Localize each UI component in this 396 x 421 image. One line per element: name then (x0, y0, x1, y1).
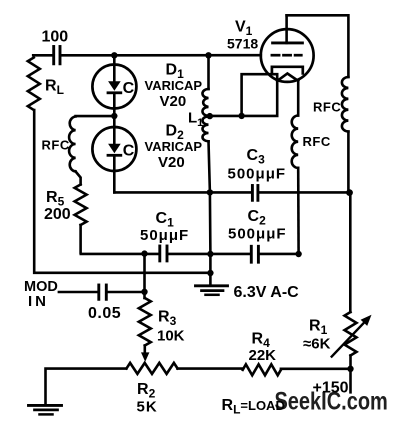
wire left rail down (34, 110, 210, 273)
svg-text:50μμF: 50μμF (140, 227, 189, 244)
tube V1 5718 envelope (227, 19, 314, 82)
node C bus at MOD divider (141, 250, 147, 256)
wire MOD divider vertical (143, 254, 146, 298)
capacitor 100 (42, 29, 69, 64)
wire right rail middle (348, 132, 350, 313)
wire L1 bottom down to ground bus (209, 141, 211, 285)
wire R2 to R4 (178, 367, 243, 370)
wire L1 tap to cathode loop (210, 115, 242, 118)
wire tank bottom bus left part (114, 191, 250, 194)
node ground tee (207, 270, 213, 276)
wire RFC middle down to C2 bus (297, 168, 300, 254)
node top of D1 (111, 52, 117, 58)
svg-text:VARICAP: VARICAP (145, 78, 203, 93)
wire tube top to right rail (287, 15, 349, 77)
label VARICAP V20 (D2) (145, 139, 203, 171)
node bottom right rail (347, 366, 353, 372)
varicap D1 (92, 55, 136, 116)
wire 0.05 to R3 node (109, 291, 145, 294)
wire cathode/filament loop under tube (242, 74, 278, 116)
svg-text:RFC: RFC (303, 134, 331, 149)
wire ground-left to R2 (46, 369, 127, 405)
svg-text:SeekIC.com: SeekIC.com (274, 387, 387, 415)
wire filament right lead (297, 81, 300, 116)
svg-text:0.05: 0.05 (88, 305, 121, 322)
ground 6.3V A-C (196, 284, 300, 301)
inductor L1 (188, 55, 209, 141)
capacitor C3 500uuF (228, 147, 287, 200)
terminal +150 stub (313, 369, 351, 397)
node D1/D2 junction (111, 113, 117, 119)
wire C bus left part (81, 253, 158, 256)
wire C bus middle part (169, 253, 249, 256)
svg-text:C: C (123, 142, 135, 159)
resistor R5 200 (44, 172, 87, 253)
wire R4 to right rail (281, 367, 351, 370)
tube grid (dashed) (272, 54, 301, 57)
node L1 tap (207, 113, 213, 119)
node cathode loop corner (238, 113, 244, 119)
wire tank bottom bus right part (260, 191, 350, 194)
svg-text:≈6K: ≈6K (303, 336, 331, 353)
svg-text:R1: R1 (309, 318, 328, 338)
tube cathode (272, 67, 303, 74)
svg-text:22K: 22K (249, 347, 277, 364)
tube filament (277, 74, 298, 81)
ground bottom-left (29, 405, 62, 414)
capacitor 0.05 (88, 285, 121, 322)
svg-text:C3: C3 (247, 147, 266, 167)
varicap D2 (92, 116, 136, 192)
node tank bus at right rail (346, 189, 353, 196)
wire plate lead (285, 15, 288, 43)
svg-text:500μμF: 500μμF (228, 166, 287, 183)
svg-text:RL: RL (45, 78, 64, 98)
resistor R3 10K (139, 298, 185, 353)
resistor R4 22K (243, 331, 281, 376)
inductor RFC right (313, 77, 348, 132)
svg-text:100: 100 (42, 29, 69, 46)
svg-text:VARICAP: VARICAP (145, 139, 203, 154)
capacitor C2 500uuF (228, 208, 287, 262)
node MOD junction (141, 289, 147, 295)
svg-text:5718: 5718 (227, 36, 258, 52)
label VARICAP V20 (D1) (145, 78, 203, 110)
wire top-left segment to cap 100 (33, 54, 52, 57)
svg-text:V20: V20 (160, 93, 187, 110)
wire MOD IN lead (59, 291, 96, 294)
terminal MOD IN (24, 279, 58, 310)
resistor R2 5K (pot) (127, 363, 178, 416)
svg-text:V20: V20 (158, 154, 185, 171)
svg-text:RFC: RFC (313, 100, 341, 115)
svg-text:C: C (123, 80, 135, 97)
wire main top bus to tube grid (62, 54, 261, 57)
svg-text:6.3V A-C: 6.3V A-C (234, 284, 300, 301)
svg-text:R3: R3 (158, 309, 177, 329)
arrow R3 wiper onto R2 (141, 352, 149, 361)
svg-text:L1: L1 (188, 110, 203, 130)
resistor R1 6K variable (303, 312, 372, 369)
svg-text:10K: 10K (157, 328, 185, 345)
svg-text:500μμF: 500μμF (228, 226, 287, 243)
node top of L1 (205, 52, 211, 58)
capacitor C1 50uuF (140, 210, 189, 261)
tube plate (273, 41, 303, 44)
inductor RFC left (42, 117, 76, 172)
wire RFC-left to D junction (76, 115, 115, 118)
node tank bus at L1 (207, 189, 213, 195)
svg-text:5K: 5K (137, 399, 158, 416)
wire C bus right part (261, 253, 299, 256)
node C bus at ground lead (207, 251, 213, 257)
svg-text:IN: IN (28, 293, 49, 310)
svg-text:200: 200 (44, 206, 71, 223)
svg-text:RFC: RFC (42, 138, 70, 153)
inductor RFC middle (cathode choke) (292, 116, 331, 168)
resistor RL (28, 58, 64, 111)
node C bus at RFC middle (295, 251, 301, 257)
